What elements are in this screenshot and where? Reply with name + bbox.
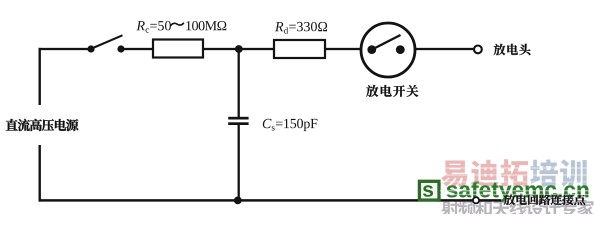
watermark green text safetyemc.cn [447,181,589,202]
wire: capacitor Cs down to node B [238,125,240,200]
label Rc=50~100MOhm [136,21,226,33]
label Rd=330Ohm [275,22,327,34]
node B junction dot [234,197,242,205]
terminal open circle (discharge head) [474,46,482,54]
wire: left vertical upper segment [39,48,41,105]
switch S blade [91,35,123,49]
watermark gray text 射频和天线设计专家 [441,200,594,218]
watermark blue text 培训 [530,159,587,187]
wire: node A to resistor Rd [239,48,274,50]
discharge switch contact dot left [367,45,376,54]
label 放电回路连接点 (discharge loop connection point) [504,194,585,205]
connection point open circle [473,197,479,203]
switch S contact dot left [87,45,94,52]
resistor Rc body [153,40,203,58]
label 放电开关 (discharge switch) [366,85,418,97]
wire: discharge switch to terminal [415,48,474,50]
watermark red text 易迪拓 [441,159,528,187]
wire: bottom horizontal (right of logo) [438,199,502,202]
wire: Rd to discharge switch [325,48,361,50]
resistor Rd body [274,40,325,58]
wire: Rc to node A [203,48,239,50]
discharge switch blade [372,35,401,50]
discharge switch contact dot right [396,45,405,54]
capacitor Cs top plate [228,117,248,120]
watermark logo letter s [423,185,433,197]
node A junction dot [235,45,243,53]
wire: top-left horizontal segment [39,48,90,50]
wire: left vertical lower segment [39,145,41,202]
wire: node A down to capacitor Cs [238,49,240,117]
discharge switch body circle [361,23,415,77]
wire: switch to resistor Rc [121,48,152,50]
label 直流高压电源 (DC high-voltage supply) [6,119,79,131]
switch S contact dot right [117,45,124,52]
scan streak lines [440,167,594,168]
wire: bottom horizontal (left of logo) [39,199,419,202]
capacitor Cs bottom plate [228,122,248,125]
watermark logo box [419,181,439,200]
label Cs=150pF [263,119,318,131]
label 放电头 (discharge head) [494,44,531,56]
